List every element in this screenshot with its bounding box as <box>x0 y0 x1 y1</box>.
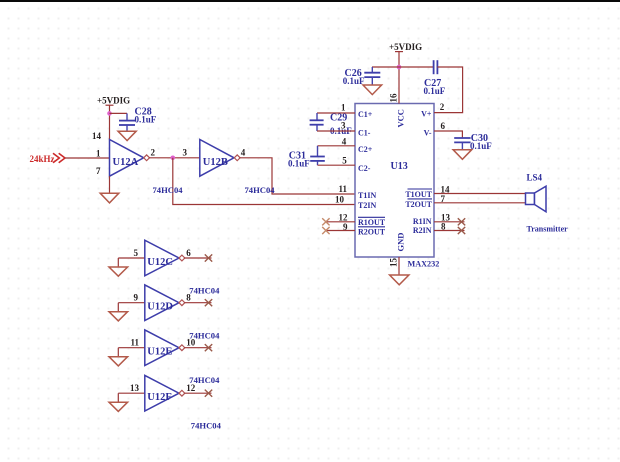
ground (U12F) <box>109 402 128 411</box>
svg-text:0.1uF: 0.1uF <box>288 159 310 169</box>
svg-text:2: 2 <box>151 148 156 158</box>
pin GND 15 (bottom) <box>398 257 400 275</box>
pin VCC 16 (top) <box>398 67 400 104</box>
ground (U13 pin 15) <box>390 275 409 285</box>
inverter U12A <box>110 140 150 177</box>
wire (C27 to V+ pin 2) <box>434 67 463 113</box>
wire (U12E input) <box>118 348 145 357</box>
pin 9 stub R2OUT <box>326 230 355 232</box>
svg-text:14: 14 <box>441 184 451 194</box>
svg-text:R1OUT: R1OUT <box>358 218 386 227</box>
svg-text:V-: V- <box>424 129 432 138</box>
svg-text:11: 11 <box>338 184 347 194</box>
inverter U12D <box>145 285 185 321</box>
wire (24kHz to pin 1) <box>65 157 110 159</box>
no-connect X pin 8 <box>458 227 465 234</box>
svg-text:4: 4 <box>241 148 246 158</box>
svg-text:R2OUT: R2OUT <box>358 227 386 236</box>
svg-text:10: 10 <box>335 194 345 204</box>
svg-text:C2+: C2+ <box>358 145 373 154</box>
svg-text:U12F: U12F <box>147 392 172 403</box>
wire (to C28) <box>110 112 128 114</box>
pin 13 stub R1IN <box>434 221 465 223</box>
junction (power / C28) <box>107 111 112 116</box>
svg-text:C1+: C1+ <box>358 110 373 119</box>
svg-text:T2OUT: T2OUT <box>405 200 432 209</box>
svg-text:LS4: LS4 <box>527 173 543 183</box>
wire (pin 1 C1+) <box>317 112 355 114</box>
svg-text:6: 6 <box>186 248 191 258</box>
inverter U12F <box>145 375 185 411</box>
capacitor C31 <box>288 146 325 169</box>
svg-text:+5VDIG: +5VDIG <box>389 42 422 52</box>
svg-text:74HC04: 74HC04 <box>191 421 222 431</box>
svg-text:10: 10 <box>186 338 196 348</box>
capacitor C30 <box>454 133 492 151</box>
svg-text:15: 15 <box>389 258 399 268</box>
wire (U12F output stub) <box>184 392 211 394</box>
svg-text:R1IN: R1IN <box>413 217 432 226</box>
ground (U12C) <box>109 267 128 276</box>
svg-text:16: 16 <box>389 93 399 103</box>
svg-text:0.1uF: 0.1uF <box>424 86 446 96</box>
wire (pin 4 C2+) <box>318 145 356 147</box>
svg-text:T2IN: T2IN <box>358 201 376 210</box>
svg-text:U12B: U12B <box>203 157 228 168</box>
wire (U12F input) <box>118 393 145 402</box>
wire (U12B out to T1IN pin 11) <box>239 158 355 194</box>
no-connect X pin 13 <box>458 218 465 225</box>
no-connect X (U12F out) <box>205 390 212 397</box>
wire (pin 5 C2-) <box>318 164 356 166</box>
svg-text:12: 12 <box>339 212 349 222</box>
ground (U12D) <box>109 312 128 321</box>
svg-text:R2IN: R2IN <box>413 226 432 235</box>
no-connect X (U12C out) <box>205 254 212 261</box>
op-amp U13 chip body <box>355 104 434 258</box>
svg-text:9: 9 <box>134 293 139 303</box>
inverter U12C <box>145 240 185 276</box>
ground (U12A) <box>100 193 119 203</box>
svg-text:T1OUT: T1OUT <box>405 190 432 199</box>
capacitor C26 <box>343 67 381 86</box>
svg-text:+5VDIG: +5VDIG <box>97 96 130 106</box>
svg-text:3: 3 <box>341 121 346 131</box>
ground (U12E) <box>109 357 128 366</box>
svg-text:Transmitter: Transmitter <box>527 225 569 234</box>
svg-text:VCC: VCC <box>396 109 406 127</box>
top window border <box>0 0 620 2</box>
capacitor C28 <box>119 107 157 132</box>
svg-text:U13: U13 <box>391 161 408 172</box>
svg-text:12: 12 <box>186 383 196 393</box>
capacitor C27 <box>424 60 446 96</box>
svg-text:0.1uF: 0.1uF <box>470 141 492 151</box>
svg-text:74HC04: 74HC04 <box>245 185 276 195</box>
svg-text:14: 14 <box>92 131 102 141</box>
capacitor C29 <box>310 113 353 137</box>
no-connect X pin 9 <box>322 227 329 234</box>
svg-text:U12C: U12C <box>147 257 173 268</box>
power port +5VDIG (top) <box>389 42 422 67</box>
svg-text:U12D: U12D <box>147 302 173 313</box>
svg-text:1: 1 <box>96 149 101 159</box>
svg-text:C2-: C2- <box>358 164 371 173</box>
svg-text:5: 5 <box>134 248 139 258</box>
svg-text:MAX232: MAX232 <box>408 260 440 269</box>
wire (rail to C26) <box>372 66 433 68</box>
svg-text:0.1uF: 0.1uF <box>135 115 157 125</box>
svg-text:74HC04: 74HC04 <box>153 185 184 195</box>
svg-text:V+: V+ <box>421 109 432 118</box>
svg-text:74HC04: 74HC04 <box>189 286 220 296</box>
wire (U12C output stub) <box>184 257 211 259</box>
power port +5VDIG (left) <box>97 96 130 140</box>
svg-text:24kHz: 24kHz <box>30 154 55 164</box>
svg-text:5: 5 <box>342 156 347 166</box>
ground (C30) <box>453 150 472 160</box>
wire (junction down to T2IN pin 10) <box>173 158 355 205</box>
svg-text:T1IN: T1IN <box>358 191 376 200</box>
svg-text:U12E: U12E <box>147 347 172 358</box>
svg-text:11: 11 <box>130 338 139 348</box>
svg-text:C1-: C1- <box>358 128 371 137</box>
ground (C26) <box>363 85 382 95</box>
port 24kHz <box>30 153 66 164</box>
speaker LS4 <box>526 173 569 234</box>
svg-text:2: 2 <box>440 102 445 112</box>
junction (VCC rail) <box>397 65 402 70</box>
svg-text:U12A: U12A <box>113 157 139 168</box>
svg-text:3: 3 <box>183 148 188 158</box>
svg-text:8: 8 <box>186 293 191 303</box>
junction node <box>171 156 176 161</box>
inverter U12B <box>200 140 240 177</box>
no-connect X pin 12 <box>322 218 329 225</box>
inverter U12E <box>145 330 185 366</box>
svg-text:1: 1 <box>341 103 346 113</box>
svg-text:13: 13 <box>130 383 140 393</box>
svg-text:4: 4 <box>342 137 347 147</box>
svg-text:7: 7 <box>96 166 101 176</box>
no-connect X (U12E out) <box>205 344 212 351</box>
wire (U12D input) <box>118 303 145 312</box>
wire (T1OUT pin 14 to speaker) <box>434 193 526 195</box>
wire (U12E output stub) <box>184 347 211 349</box>
wire (T2OUT pin 7 to speaker) <box>434 202 526 204</box>
wire (pin 6 V- to C30) <box>434 131 462 137</box>
pin 8 stub R2IN <box>434 230 465 232</box>
no-connect X (U12D out) <box>205 299 212 306</box>
wire (U12A out to U12B in) <box>149 157 200 159</box>
svg-text:6: 6 <box>441 121 446 131</box>
pin 12 stub R1OUT <box>326 221 355 223</box>
svg-text:GND: GND <box>396 233 406 252</box>
ground (C28) <box>118 131 136 140</box>
wire (U12C input) <box>118 258 145 267</box>
wire (pin 3 C1-) <box>317 130 355 132</box>
wire (U12D output stub) <box>184 302 211 304</box>
wire (U12A gnd stub) <box>109 176 111 193</box>
